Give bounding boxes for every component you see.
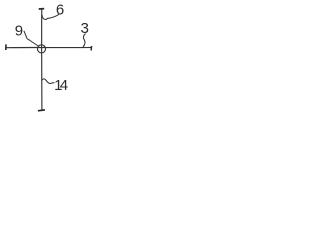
- svg-text:4: 4: [60, 77, 68, 94]
- svg-text:9: 9: [15, 22, 23, 39]
- wire end tick right: [90, 46, 92, 50]
- horizontal wire: [6, 46, 92, 48]
- leader from pin 14 to vertical wire: [42, 79, 55, 84]
- vertical wire: [41, 9, 43, 110]
- leader from pin 9 to junction: [24, 31, 39, 46]
- wire end tick top: [39, 8, 45, 10]
- leader to pin 6: [42, 14, 59, 19]
- wire end tick left: [5, 44, 7, 50]
- wire end tick bottom: [38, 109, 45, 112]
- leader from pin 3 to horizontal wire: [83, 34, 86, 47]
- junction node (open circle): [37, 45, 45, 53]
